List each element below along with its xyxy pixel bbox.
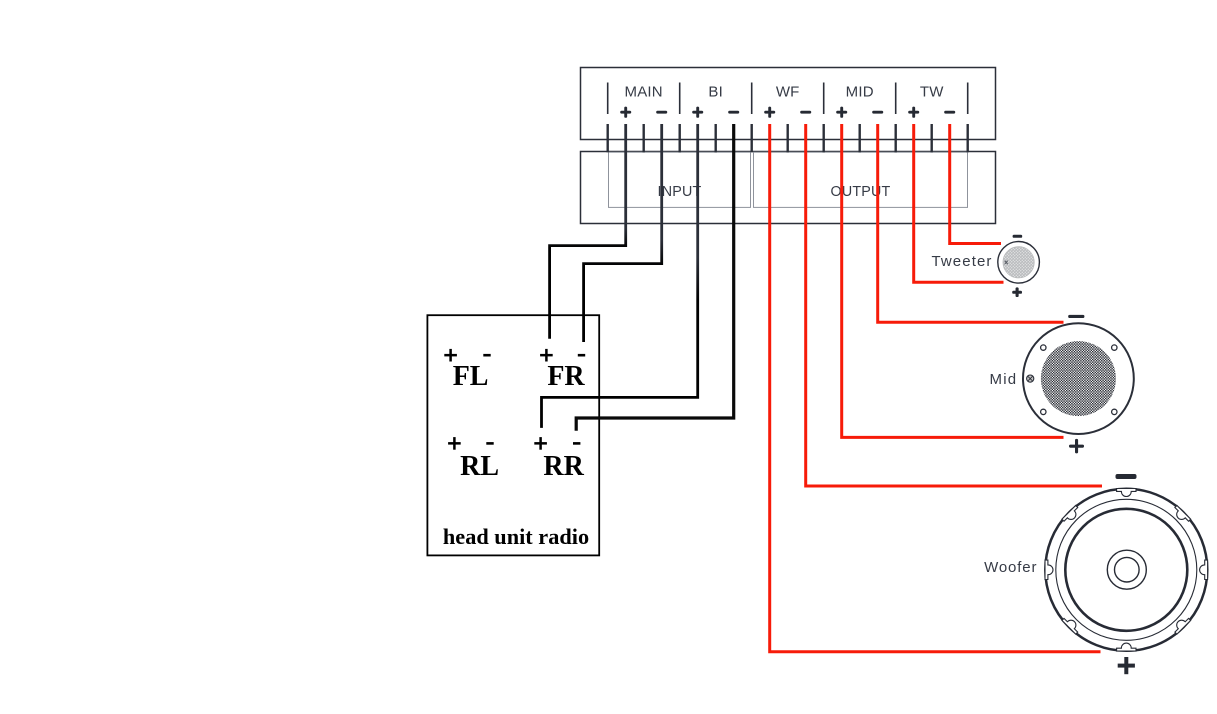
FR minus bbox=[578, 354, 585, 357]
RL plus bbox=[448, 437, 461, 450]
wire BI+ to RR+ bbox=[542, 124, 698, 428]
RR minus bbox=[573, 442, 580, 445]
svg-text:Mid: Mid bbox=[990, 371, 1018, 388]
woofer bbox=[1045, 489, 1208, 652]
svg-text:head unit radio: head unit radio bbox=[443, 524, 589, 549]
wire WF- to woofer minus bbox=[806, 124, 1102, 486]
svg-text:INPUT: INPUT bbox=[658, 184, 702, 200]
tweeter plus bbox=[1012, 287, 1022, 297]
svg-text:FR: FR bbox=[547, 361, 585, 392]
svg-text:TW: TW bbox=[920, 84, 944, 101]
terminal WF plus bbox=[764, 107, 775, 118]
terminal MAIN minus bbox=[656, 111, 667, 114]
wire BI- to RR- bbox=[576, 124, 734, 431]
wire WF+ to woofer plus bbox=[770, 124, 1101, 652]
head unit radio box bbox=[427, 315, 599, 555]
woofer plus bbox=[1118, 657, 1135, 674]
svg-text:BI: BI bbox=[708, 84, 723, 101]
mid plus bbox=[1069, 439, 1084, 454]
wire TW- to tweeter minus bbox=[950, 124, 1001, 244]
RL minus bbox=[486, 442, 493, 445]
wire MID- to mid minus bbox=[878, 124, 1064, 322]
terminal pins bbox=[608, 124, 968, 152]
INPUT block bbox=[609, 152, 751, 207]
terminal section dividers bbox=[608, 83, 968, 115]
wire TW+ to tweeter plus bbox=[914, 124, 1004, 282]
svg-text:FL: FL bbox=[453, 361, 489, 392]
terminal TW plus bbox=[908, 107, 919, 118]
svg-text:Woofer: Woofer bbox=[984, 559, 1037, 576]
svg-text:RR: RR bbox=[543, 451, 584, 482]
terminal MID minus bbox=[872, 111, 883, 114]
mid speaker bbox=[1023, 323, 1134, 434]
wire MAIN+ to FR+ bbox=[550, 124, 626, 339]
amplifier box bbox=[581, 152, 996, 224]
tweeter bbox=[998, 241, 1040, 283]
svg-text:OUTPUT: OUTPUT bbox=[831, 184, 891, 200]
terminal MID plus bbox=[836, 107, 847, 118]
wire MID+ to mid plus bbox=[842, 124, 1064, 437]
mid minus bbox=[1068, 315, 1084, 318]
FL plus bbox=[444, 349, 457, 362]
svg-text:MID: MID bbox=[846, 84, 874, 101]
terminal MAIN plus bbox=[620, 107, 631, 118]
FR plus bbox=[540, 349, 553, 362]
tweeter minus bbox=[1013, 235, 1023, 238]
RR plus bbox=[534, 437, 547, 450]
terminal TW minus bbox=[944, 111, 955, 114]
svg-text:WF: WF bbox=[776, 84, 800, 101]
woofer minus bbox=[1116, 474, 1137, 479]
woofer mounting tabs bbox=[1045, 489, 1208, 652]
svg-text:Tweeter: Tweeter bbox=[931, 253, 992, 270]
crossover terminal box bbox=[581, 68, 996, 140]
FL minus bbox=[483, 354, 490, 357]
svg-text:RL: RL bbox=[460, 451, 499, 482]
wire MAIN- to FR- bbox=[584, 124, 662, 342]
svg-text:MAIN: MAIN bbox=[625, 84, 663, 101]
terminal WF minus bbox=[800, 111, 811, 114]
terminal BI plus bbox=[692, 107, 703, 118]
terminal BI minus bbox=[728, 111, 739, 114]
OUTPUT block bbox=[754, 152, 968, 207]
